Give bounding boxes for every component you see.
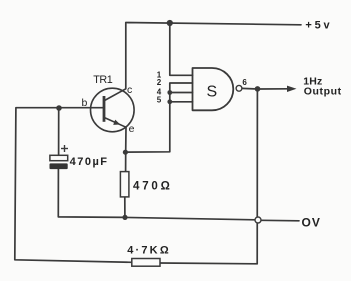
svg-text:4·7KΩ: 4·7KΩ [127, 244, 171, 256]
svg-text:OV: OV [302, 216, 321, 230]
svg-text:470Ω: 470Ω [133, 181, 173, 193]
svg-text:5: 5 [157, 95, 162, 104]
svg-text:6: 6 [242, 78, 247, 87]
svg-text:470µF: 470µF [70, 156, 109, 168]
svg-text:c: c [127, 84, 132, 96]
svg-text:S: S [207, 84, 218, 101]
svg-text:+5v: +5v [305, 20, 332, 32]
svg-text:2: 2 [157, 78, 162, 87]
svg-text:b: b [82, 97, 88, 109]
svg-text:e: e [129, 123, 135, 135]
svg-text:TR1: TR1 [93, 74, 113, 86]
svg-text:Output: Output [304, 86, 342, 98]
